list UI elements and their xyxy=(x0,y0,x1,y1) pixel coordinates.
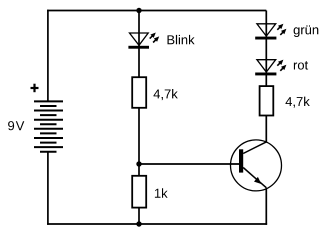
wire R2 to bottom rail xyxy=(138,208,140,224)
label 1k xyxy=(155,188,168,197)
label Blink xyxy=(168,35,195,44)
wire middle branch from top rail to LED xyxy=(138,11,140,47)
wire left rail upper xyxy=(47,10,49,102)
LED D1 Blink xyxy=(128,33,159,49)
resistor R1 4.7k (middle) xyxy=(132,77,146,108)
wire red LED to resistor R3 xyxy=(265,75,267,86)
wire right branch top to green LED xyxy=(265,11,267,38)
wire left rail lower xyxy=(47,152,49,225)
wire middle resistor R1 to resistor R2 xyxy=(138,108,140,176)
label 4,7k (middle) xyxy=(154,89,178,100)
wire top rail xyxy=(47,10,266,12)
resistor R2 1k xyxy=(132,176,146,208)
wire green LED to red LED xyxy=(265,39,267,73)
label 9 V xyxy=(8,121,24,130)
label rot xyxy=(294,61,308,70)
wire base connection xyxy=(139,163,239,165)
label gruen xyxy=(294,25,319,37)
transistor Q1 NPN xyxy=(231,140,282,191)
LED D3 rot xyxy=(255,60,286,76)
node junction base xyxy=(136,161,141,166)
label 4,7k (right) xyxy=(286,97,310,108)
resistor R3 4.7k (right) xyxy=(260,86,274,115)
LED D2 gruen xyxy=(255,24,286,40)
wire emitter to bottom rail xyxy=(265,188,267,225)
wire R3 to collector xyxy=(265,116,267,143)
wire middle LED to resistor R1 xyxy=(138,48,140,77)
battery B1 9V xyxy=(34,101,63,151)
node junction bottom xyxy=(136,221,141,226)
node junction top (middle/top rail) xyxy=(136,8,141,13)
label + (battery positive) xyxy=(31,84,39,93)
wire bottom rail xyxy=(47,223,267,225)
